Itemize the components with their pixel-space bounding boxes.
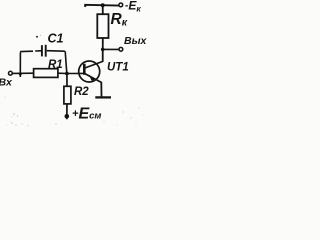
wire emitter down <box>100 82 102 97</box>
svg-text:UТ1: UТ1 <box>107 62 129 74</box>
wire C1 left vertical <box>19 52 21 77</box>
svg-text:Вых: Вых <box>124 35 147 47</box>
resistor Rk <box>97 14 108 38</box>
node junction top <box>101 3 105 7</box>
terminal Vh input <box>9 71 13 75</box>
node output junction <box>101 48 105 52</box>
resistor R2 <box>64 86 71 104</box>
wire C1 right <box>47 50 65 53</box>
wire R2 branch <box>66 74 68 87</box>
wire R2 to bias terminal <box>66 104 68 119</box>
wire top supply rail <box>85 5 119 7</box>
resistor R1 <box>34 69 58 78</box>
ground <box>95 96 111 98</box>
svg-text:С1: С1 <box>48 32 64 46</box>
terminal Vyh <box>119 47 123 51</box>
wire junction to Rk <box>102 5 104 14</box>
wire C1 top left second dash <box>35 50 41 52</box>
transistor emitter arrow <box>89 74 95 81</box>
wire input to R1 <box>13 72 34 74</box>
wire output branch <box>103 48 119 50</box>
svg-text:R2: R2 <box>74 86 89 98</box>
transistor emitter lead <box>85 74 102 83</box>
capacitor C1 right plate <box>45 45 47 57</box>
svg-text:Вх: Вх <box>0 76 13 88</box>
wire R1 to base junction <box>58 72 67 74</box>
node C1 tap <box>19 73 22 76</box>
transistor UT1 circle <box>79 61 100 82</box>
wire Rk to collector <box>102 38 104 62</box>
terminal -Ek <box>119 3 123 7</box>
wire base junction to transistor <box>67 72 84 74</box>
capacitor C1 left plate <box>41 45 43 56</box>
wire C1 right vertical <box>65 51 67 73</box>
wire C1 top left <box>20 51 33 52</box>
transistor collector lead <box>85 62 103 69</box>
terminal bias dot <box>65 114 70 119</box>
transistor base bar <box>83 64 86 75</box>
node base R2 junction <box>65 72 69 76</box>
